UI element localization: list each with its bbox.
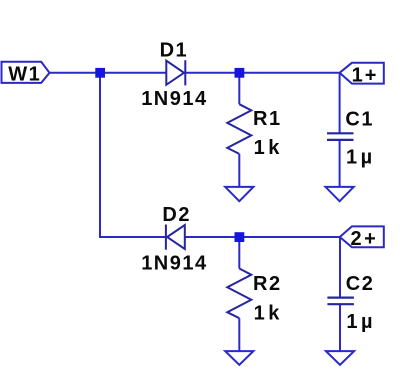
capacitor C2 bbox=[327, 298, 354, 305]
resistor R2 bbox=[227, 269, 251, 319]
junction node A bbox=[95, 68, 105, 78]
wire R2 bottom to ground bbox=[238, 318, 240, 351]
wire C2 bottom to ground bbox=[339, 304, 341, 351]
resistor R1 bbox=[227, 104, 251, 154]
junction node B bbox=[235, 68, 245, 78]
wire node A down to row 2 bbox=[100, 73, 166, 237]
wire node B to R1 top bbox=[238, 73, 240, 104]
ground under C2 bbox=[326, 351, 354, 365]
net tag 1+ bbox=[340, 63, 384, 87]
wire W1 tip to D1 anode bbox=[50, 72, 167, 74]
diode D1 bbox=[166, 60, 185, 85]
wire node C to R2 top bbox=[238, 237, 240, 269]
wire C1 bottom to ground bbox=[339, 140, 341, 187]
wire R1 bottom to ground bbox=[238, 154, 240, 187]
ground under R1 bbox=[225, 187, 253, 201]
svg-text:1N914: 1N914 bbox=[141, 88, 207, 110]
wire D1 cathode to tag 1+ tip bbox=[185, 72, 339, 74]
svg-text:C1: C1 bbox=[345, 109, 374, 131]
diode D2 bbox=[166, 225, 185, 250]
svg-text:R1: R1 bbox=[253, 108, 282, 130]
junction node C bbox=[235, 232, 245, 242]
ground under R2 bbox=[225, 351, 253, 365]
net tag W1 bbox=[2, 62, 50, 86]
svg-text:C2: C2 bbox=[346, 273, 375, 295]
svg-text:1+: 1+ bbox=[352, 64, 379, 86]
svg-text:2+: 2+ bbox=[351, 228, 379, 250]
svg-text:1k: 1k bbox=[254, 137, 283, 159]
net tag 2+ bbox=[340, 226, 384, 250]
svg-text:1µ: 1µ bbox=[346, 147, 376, 169]
capacitor C1 bbox=[327, 133, 354, 140]
svg-text:D2: D2 bbox=[162, 204, 191, 226]
svg-text:W1: W1 bbox=[8, 63, 41, 85]
wire tag 2+ tip down to C2 bbox=[339, 237, 341, 298]
svg-text:1µ: 1µ bbox=[346, 311, 376, 333]
ground under C1 bbox=[326, 187, 354, 201]
svg-text:1N914: 1N914 bbox=[141, 252, 207, 274]
wire tag 1+ tip down to C1 bbox=[339, 73, 341, 134]
wire D2 anode side to tag 2+ tip bbox=[185, 236, 340, 238]
svg-text:1k: 1k bbox=[254, 303, 283, 325]
svg-text:R2: R2 bbox=[253, 273, 282, 295]
svg-text:D1: D1 bbox=[160, 40, 189, 62]
